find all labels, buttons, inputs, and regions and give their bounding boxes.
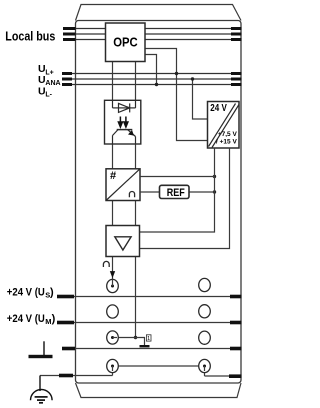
svg-text:): ) xyxy=(52,313,56,325)
svg-text:): ) xyxy=(50,287,54,299)
svg-text:24 V: 24 V xyxy=(210,103,227,114)
svg-text:REF: REF xyxy=(167,187,185,199)
svg-text:L-: L- xyxy=(45,92,52,99)
svg-text:1: 1 xyxy=(147,336,150,342)
svg-text:#: # xyxy=(110,170,116,182)
svg-text:Local bus: Local bus xyxy=(5,29,55,44)
svg-text:/ +15 V: / +15 V xyxy=(216,138,237,145)
svg-text:L+: L+ xyxy=(45,69,53,76)
svg-text:ANA: ANA xyxy=(45,80,60,87)
svg-text:+24 V (U: +24 V (U xyxy=(7,287,45,299)
svg-text:+7,5 V: +7,5 V xyxy=(218,131,238,138)
svg-text:OPC: OPC xyxy=(113,35,138,50)
svg-text:+24 V (U: +24 V (U xyxy=(7,313,45,325)
